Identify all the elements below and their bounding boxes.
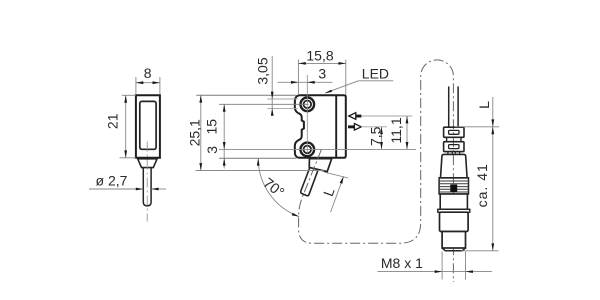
svg-text:8: 8: [144, 65, 152, 81]
svg-text:3: 3: [318, 66, 326, 82]
svg-text:3: 3: [204, 146, 220, 154]
svg-text:15: 15: [204, 119, 220, 135]
svg-text:25,1: 25,1: [186, 119, 202, 146]
svg-text:ø 2,7: ø 2,7: [96, 173, 128, 189]
svg-text:7,5: 7,5: [368, 126, 384, 146]
svg-text:21: 21: [105, 113, 121, 129]
svg-text:11,1: 11,1: [388, 117, 404, 143]
svg-text:15,8: 15,8: [306, 48, 333, 64]
svg-text:3,05: 3,05: [254, 57, 270, 84]
svg-text:ca. 41: ca. 41: [474, 163, 490, 207]
svg-text:LED: LED: [362, 66, 389, 82]
svg-text:M8 x 1: M8 x 1: [381, 255, 423, 271]
svg-text:L: L: [476, 101, 492, 109]
